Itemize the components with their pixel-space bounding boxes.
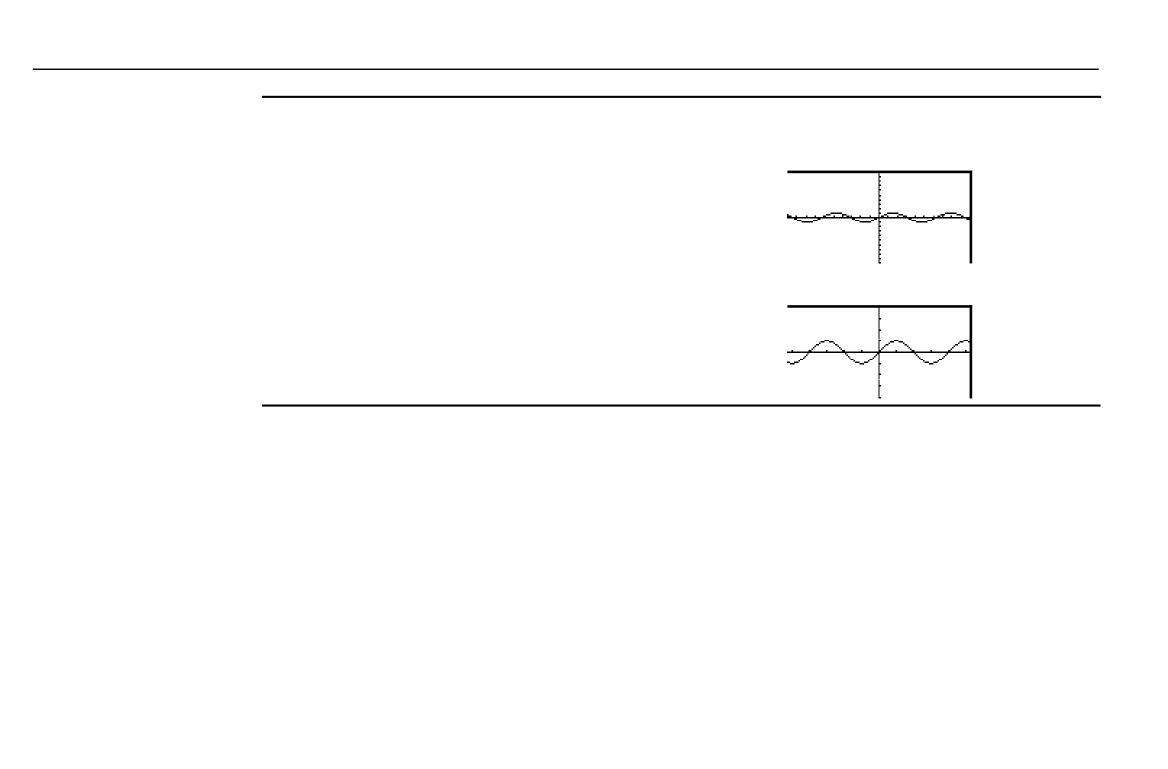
graph1 sine curve y=sin(x) default window [787, 212, 971, 222]
graph2 screen top border [787, 305, 972, 308]
header rule (thin, full width) [33, 69, 1099, 70]
graph2 axes and ticks [787, 306, 971, 398]
content bottom rule (thick) [262, 405, 1101, 407]
graph1 screen right border [970, 171, 973, 264]
graph1 axes and ticks [787, 172, 971, 264]
content top rule (thick) [262, 96, 1101, 98]
graph2 sine curve y=sin(x) trig window [787, 340, 971, 365]
graph2 screen right border [970, 305, 973, 398]
graph1 screen top border [787, 171, 972, 174]
